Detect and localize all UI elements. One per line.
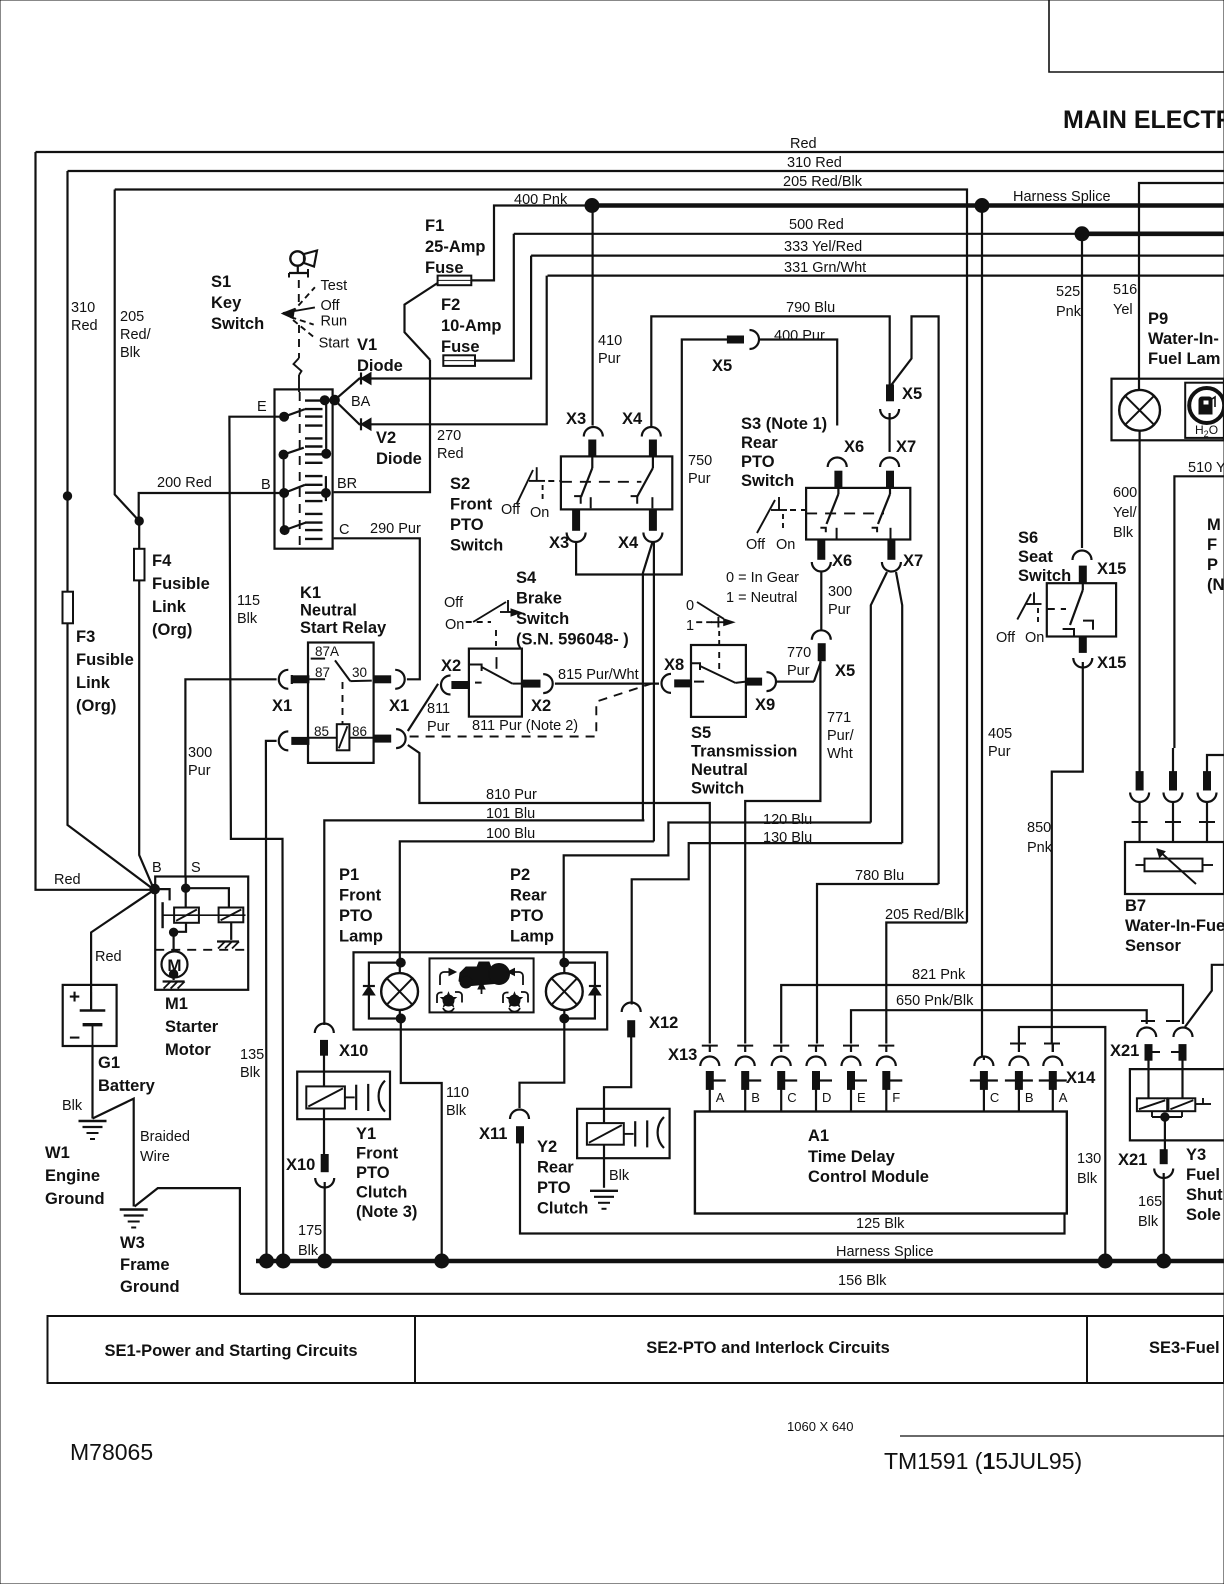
wire P2 bottom to X11 — [520, 1019, 565, 1109]
connector X13 pin E — [843, 1045, 859, 1047]
svg-text:Blk: Blk — [609, 1168, 630, 1184]
junction dot 400 Pnk at F1 feed — [585, 199, 599, 213]
svg-text:(N: (N — [1207, 576, 1224, 594]
svg-text:811: 811 — [427, 701, 450, 717]
svg-text:Link: Link — [76, 674, 111, 692]
svg-text:B: B — [1025, 1090, 1034, 1105]
svg-text:30: 30 — [352, 665, 367, 680]
svg-text:Seat: Seat — [1018, 548, 1053, 566]
wire P1 lamp vertical — [399, 963, 401, 973]
svg-text:W1: W1 — [45, 1144, 70, 1162]
S2 actuator — [517, 470, 534, 504]
module A1 box — [695, 1112, 1067, 1214]
Y3 coil left — [1137, 1098, 1167, 1111]
svg-text:B: B — [751, 1090, 760, 1105]
svg-text:750: 750 — [688, 453, 712, 469]
svg-text:Fusible: Fusible — [152, 575, 210, 593]
wire 525 Pnk — [1081, 234, 1083, 548]
wire C to 290 Pur — [334, 538, 420, 679]
wire fuel module output — [1172, 748, 1174, 772]
svg-text:Y3: Y3 — [1186, 1146, 1206, 1164]
svg-text:D: D — [822, 1090, 831, 1105]
S2 dashed bar — [561, 481, 642, 483]
svg-text:Sole: Sole — [1186, 1206, 1221, 1224]
svg-text:X15: X15 — [1097, 560, 1126, 578]
starter internal dashed divider — [155, 949, 248, 951]
svg-text:Fuel: Fuel — [1186, 1166, 1220, 1184]
switch S2 box — [561, 456, 672, 509]
wire 205 Red/Blk to pin F — [886, 923, 967, 1044]
svg-text:Yel: Yel — [1113, 302, 1133, 318]
svg-text:10-Amp: 10-Amp — [441, 317, 502, 335]
svg-text:Start Relay: Start Relay — [300, 619, 387, 637]
svg-text:Front: Front — [356, 1145, 399, 1163]
S4 link dashed — [496, 657, 498, 669]
wire BA to V2 diode — [335, 276, 547, 425]
svg-text:Pur: Pur — [988, 744, 1011, 760]
section box SE3 — [1087, 1316, 1224, 1383]
svg-text:(Org): (Org) — [152, 621, 192, 639]
svg-text:X15: X15 — [1097, 654, 1126, 672]
S4 left contact — [469, 665, 482, 672]
svg-text:Pur: Pur — [598, 351, 621, 367]
svg-text:C: C — [990, 1090, 999, 1105]
svg-text:331 Grn/Wht: 331 Grn/Wht — [784, 260, 866, 276]
connector X3 bottom — [573, 509, 580, 530]
wire 600 Yel/Blk — [1138, 431, 1140, 772]
gauge H2O circle — [1189, 388, 1224, 423]
svg-text:X4: X4 — [618, 534, 639, 552]
svg-text:Key: Key — [211, 294, 242, 312]
wire P1 bottom 110 Blk — [401, 1019, 442, 1262]
connector X14 pin B — [1009, 1057, 1028, 1067]
connector X6 bottom — [818, 540, 825, 560]
svg-text:525: 525 — [1056, 284, 1080, 300]
svg-text:771: 771 — [827, 710, 851, 726]
junction dot bus 165 — [1157, 1254, 1171, 1268]
wire 156 Blk — [240, 1293, 1224, 1295]
wire B internal hook — [155, 889, 170, 900]
svg-text:+: + — [69, 987, 80, 1008]
svg-text:Y2: Y2 — [537, 1138, 557, 1156]
wire 100 Blu — [400, 841, 654, 962]
svg-text:Pur: Pur — [787, 663, 810, 679]
svg-text:120 Blu: 120 Blu — [763, 812, 812, 828]
svg-text:516: 516 — [1113, 282, 1137, 298]
wire BA to V1 diode — [335, 256, 531, 401]
key icon S1 — [290, 251, 304, 265]
key switch shaft dashed — [298, 280, 300, 302]
svg-text:Off: Off — [321, 298, 341, 314]
svg-text:X5: X5 — [712, 357, 732, 375]
svg-text:F4: F4 — [152, 552, 172, 570]
svg-text:X9: X9 — [755, 696, 775, 714]
wire 101 Blu — [324, 820, 644, 1025]
svg-text:Wht: Wht — [827, 746, 853, 762]
svg-text:F3: F3 — [76, 628, 95, 646]
ground W3 frame ground — [120, 1208, 148, 1210]
svg-text:815 Pur/Wht: 815 Pur/Wht — [558, 667, 639, 683]
solenoid Y3 box — [1130, 1069, 1224, 1140]
connector X1 upper-right — [374, 676, 391, 683]
section box SE1 — [48, 1316, 416, 1383]
svg-text:Blk: Blk — [237, 611, 258, 627]
svg-text:Frame: Frame — [120, 1256, 170, 1274]
sensor B7 box — [1125, 842, 1224, 894]
Y1 clutch plates — [345, 1096, 355, 1098]
junction dot 110 Blk — [396, 1014, 405, 1023]
wire Red battery positive — [91, 890, 154, 1011]
switch S3 box — [806, 488, 910, 540]
ground W1 engine ground — [79, 1120, 107, 1122]
key switch shaft zigzag — [294, 358, 302, 375]
connector X11 — [510, 1110, 529, 1120]
connector X1 lower-right — [374, 735, 391, 742]
svg-text:Time Delay: Time Delay — [808, 1148, 896, 1166]
svg-text:Starter: Starter — [165, 1018, 219, 1036]
svg-text:1 = Neutral: 1 = Neutral — [726, 590, 797, 606]
svg-text:Control Module: Control Module — [808, 1168, 929, 1186]
S5 link dashed — [718, 652, 720, 672]
svg-text:Y1: Y1 — [356, 1125, 376, 1143]
wire F1 to 400 Pnk — [471, 206, 592, 281]
svg-text:165: 165 — [1138, 1194, 1162, 1210]
S3 actuator — [757, 500, 775, 533]
connector B7 pin — [1204, 772, 1211, 790]
svg-text:300: 300 — [188, 745, 212, 761]
connector B7 pin — [1136, 772, 1143, 790]
svg-text:S6: S6 — [1018, 529, 1038, 547]
S1 bottom blade — [280, 526, 289, 535]
diode P2 bypass — [564, 963, 595, 1019]
svg-text:Test: Test — [321, 278, 348, 294]
svg-text:G1: G1 — [98, 1054, 120, 1072]
clutch Y1 box — [297, 1072, 390, 1120]
junction dot P2 top — [560, 958, 569, 967]
svg-text:F2: F2 — [441, 296, 460, 314]
S1 right link Run bracket — [325, 476, 327, 501]
svg-text:Lamp: Lamp — [510, 928, 554, 946]
junction dot S — [182, 884, 190, 892]
wire X3 bottom loop to X5 — [576, 340, 727, 575]
node BA — [330, 395, 340, 405]
connector X1 lower-left — [279, 731, 289, 750]
svg-text:Lamp: Lamp — [339, 928, 383, 946]
connector B7 pin — [1170, 772, 1177, 790]
svg-text:821 Pnk: 821 Pnk — [912, 967, 966, 983]
connector X21 right — [1166, 1020, 1180, 1022]
Y2 coil — [587, 1123, 624, 1145]
tractor silhouette — [459, 962, 502, 986]
wire 650 Pnk/Blk — [851, 1010, 1147, 1043]
P9 module box top — [1139, 183, 1224, 390]
connector X15 top — [1073, 551, 1092, 561]
svg-text:Pnk: Pnk — [1056, 304, 1082, 320]
S4 blade — [482, 667, 513, 684]
wire 310 Red left rail — [68, 171, 155, 890]
node B — [150, 884, 160, 894]
tractor arrows — [440, 972, 452, 985]
svg-text:Red/: Red/ — [120, 327, 152, 343]
junction dot P2 bottom — [560, 1014, 569, 1023]
svg-text:X10: X10 — [339, 1042, 368, 1060]
svg-text:PTO: PTO — [537, 1179, 571, 1197]
svg-text:200 Red: 200 Red — [157, 475, 212, 491]
wire 270 Red — [334, 360, 430, 493]
svg-text:X1: X1 — [389, 697, 409, 715]
svg-text:Rear: Rear — [537, 1159, 574, 1177]
svg-text:X21: X21 — [1110, 1042, 1139, 1060]
svg-text:X10: X10 — [286, 1156, 315, 1174]
svg-text:Transmission: Transmission — [691, 743, 797, 761]
junction dot coil1-motor — [169, 928, 177, 936]
S5 left contact — [691, 663, 700, 670]
wire 333 Yel/Red — [531, 255, 1224, 257]
Y2 clutch plates — [624, 1133, 634, 1135]
wire 205 Red/Blk left rail — [115, 190, 154, 890]
svg-text:0: 0 — [686, 598, 694, 614]
junction dot 200 Red to F4 — [135, 517, 143, 525]
svg-text:E: E — [257, 399, 267, 415]
lamp P2 — [546, 973, 583, 1010]
svg-text:Switch: Switch — [516, 610, 569, 628]
wire 165 Blk — [1163, 1173, 1165, 1260]
B7 variable resistor — [1145, 859, 1203, 872]
svg-text:X3: X3 — [566, 410, 586, 428]
connector X13 pin D — [808, 1045, 824, 1047]
section box SE2 — [415, 1316, 1087, 1383]
connector X13 pin F — [878, 1045, 894, 1047]
Y3 coil right — [1168, 1098, 1195, 1111]
svg-text:Fuse: Fuse — [425, 259, 464, 277]
S2 left pole blade — [591, 456, 593, 468]
svg-text:B: B — [152, 860, 162, 876]
svg-text:BR: BR — [337, 476, 357, 492]
svg-text:X2: X2 — [441, 657, 461, 675]
svg-text:Pur: Pur — [427, 719, 450, 735]
svg-text:TM1591 (15JUL95): TM1591 (15JUL95) — [884, 1448, 1082, 1474]
wire 850 Pnk — [1052, 662, 1083, 1044]
svg-text:Neutral: Neutral — [300, 602, 357, 620]
svg-text:Blk: Blk — [120, 345, 141, 361]
svg-text:Blk: Blk — [446, 1103, 467, 1119]
switch S5 box — [691, 645, 746, 717]
terminal B blade — [280, 489, 289, 498]
svg-text:Engine: Engine — [45, 1167, 100, 1185]
svg-text:410: 410 — [598, 333, 622, 349]
svg-text:S: S — [191, 860, 201, 876]
svg-text:Red: Red — [790, 136, 817, 152]
svg-text:(Note 3): (Note 3) — [356, 1203, 417, 1221]
svg-text:PTO: PTO — [450, 516, 484, 534]
S1 left link E-B — [283, 455, 285, 530]
junction dot 310 Red — [63, 492, 71, 500]
svg-text:400 Pur: 400 Pur — [774, 328, 825, 344]
svg-text:S5: S5 — [691, 724, 711, 742]
svg-text:Off: Off — [444, 595, 464, 611]
svg-text:On: On — [530, 505, 549, 521]
switch S4 box — [469, 649, 522, 717]
svg-text:M1: M1 — [165, 995, 188, 1013]
junction dot bus 130 — [1098, 1254, 1112, 1268]
svg-text:Off: Off — [501, 502, 521, 518]
connector X13 pin A — [702, 1045, 718, 1047]
svg-text:Neutral: Neutral — [691, 761, 748, 779]
svg-text:A1: A1 — [808, 1127, 829, 1145]
S2 actuator link dashed — [548, 480, 561, 482]
page artifact box top-right — [1049, 0, 1224, 72]
svg-text:175: 175 — [298, 1223, 322, 1239]
junction dot motor bottom — [169, 970, 177, 978]
svg-text:X13: X13 — [668, 1046, 697, 1064]
junction dot 500 Red x1082 — [1075, 227, 1089, 241]
svg-text:S2: S2 — [450, 475, 470, 493]
svg-text:310 Red: 310 Red — [787, 155, 842, 171]
svg-text:600: 600 — [1113, 485, 1137, 501]
svg-text:C: C — [339, 522, 349, 538]
svg-text:PTO: PTO — [339, 907, 373, 925]
connector X21 left — [1141, 1020, 1155, 1022]
svg-text:Braided: Braided — [140, 1129, 190, 1145]
PTO star right — [509, 995, 520, 1006]
connector X14 dash B — [1010, 1043, 1026, 1045]
svg-text:X5: X5 — [902, 385, 922, 403]
wire 405 Pur — [981, 206, 983, 1057]
svg-text:X21: X21 — [1118, 1151, 1147, 1169]
connector X7 bottom — [888, 540, 895, 560]
svg-text:Battery: Battery — [98, 1077, 156, 1095]
svg-text:780 Blu: 780 Blu — [855, 868, 904, 884]
svg-text:X6: X6 — [844, 438, 864, 456]
svg-text:110: 110 — [446, 1085, 469, 1101]
svg-text:Start: Start — [319, 336, 350, 352]
S6 blade — [1082, 583, 1084, 590]
svg-text:BA: BA — [351, 394, 371, 410]
wire 815 Pur/Wht — [555, 682, 659, 684]
relay blade 87A-30 — [335, 660, 350, 681]
junction dot bus 110 — [435, 1254, 449, 1268]
wire S into starter — [185, 877, 187, 908]
svg-text:0 = In Gear: 0 = In Gear — [726, 570, 799, 586]
S3 left pole blade — [837, 488, 839, 494]
svg-text:Link: Link — [152, 598, 187, 616]
diode V1 — [361, 373, 371, 385]
svg-text:Ground: Ground — [120, 1278, 180, 1296]
clutch Y2 box — [577, 1109, 670, 1158]
diode V2 — [361, 418, 371, 430]
wire 120 Blu — [564, 823, 871, 963]
wire X12 to Y2 — [604, 1037, 631, 1123]
svg-text:Wire: Wire — [140, 1149, 170, 1165]
svg-text:Red: Red — [71, 318, 98, 334]
S4 actuator — [473, 602, 506, 622]
S3 right pole blade — [889, 488, 891, 494]
fuse F4 fusible link — [134, 549, 145, 581]
connector X12 — [622, 1003, 641, 1013]
svg-text:Pur: Pur — [188, 763, 211, 779]
connector X10 upper — [315, 1024, 334, 1034]
svg-text:270: 270 — [437, 428, 461, 444]
wire X4 bottom drop 1 — [643, 542, 653, 820]
switch S1 box — [275, 389, 333, 548]
connector X13 pin B — [737, 1045, 753, 1047]
wire 500 Red — [514, 233, 1224, 235]
svg-text:S1: S1 — [211, 273, 231, 291]
svg-text:X1: X1 — [272, 697, 292, 715]
connector X5 second — [887, 385, 894, 401]
svg-text:X7: X7 — [903, 552, 923, 570]
svg-text:25-Amp: 25-Amp — [425, 238, 486, 256]
connector X13 pin C — [773, 1045, 789, 1047]
connector X14 dash A — [1044, 1043, 1060, 1045]
svg-text:Blk: Blk — [62, 1098, 83, 1114]
key switch position rays — [292, 287, 315, 313]
connector X5 third — [812, 630, 831, 640]
svg-text:C: C — [787, 1090, 796, 1105]
svg-text:X4: X4 — [622, 410, 643, 428]
svg-text:X5: X5 — [835, 662, 855, 680]
relay coil wires — [309, 737, 337, 739]
svg-text:A: A — [716, 1090, 725, 1105]
junction dot harness splice x982 — [975, 199, 989, 213]
wire 300 Pur X6 to X5 — [820, 572, 822, 631]
starter plunger bar — [161, 902, 163, 928]
wire X5 bridge to 780 Blu rail — [891, 316, 938, 884]
tractor icon box — [430, 958, 534, 1012]
lamp P9 box — [1112, 379, 1224, 441]
svg-text:On: On — [445, 617, 464, 633]
svg-text:F1: F1 — [425, 217, 444, 235]
connector X1 upper-left — [279, 670, 289, 689]
svg-text:Switch: Switch — [691, 780, 744, 798]
wire 200 Red — [139, 493, 285, 521]
svg-text:115: 115 — [237, 593, 260, 609]
svg-text:Pur: Pur — [828, 602, 851, 618]
wire 400 Pur to S3 X6 — [759, 340, 837, 426]
S2 right pole blade — [652, 456, 654, 468]
wire X7 bottom split right — [896, 572, 902, 843]
svg-text:P9: P9 — [1148, 310, 1168, 328]
svg-text:(Org): (Org) — [76, 697, 116, 715]
wire X4 bottom drop 2 — [653, 542, 655, 841]
connector X21 bottom — [1160, 1150, 1167, 1164]
svg-text:Rear: Rear — [741, 434, 778, 452]
svg-text:510 Y: 510 Y — [1188, 460, 1224, 476]
Y3 wires — [1147, 1060, 1149, 1098]
svg-text:Yel/: Yel/ — [1113, 505, 1138, 521]
wire 130 Blu — [632, 843, 903, 1004]
svg-text:X6: X6 — [832, 552, 852, 570]
Y1 coil — [306, 1086, 345, 1108]
S1 blade second — [279, 450, 288, 459]
wire 500 Red thick harness segment — [1082, 232, 1224, 237]
connector X4 bottom — [649, 509, 656, 530]
svg-text:87A: 87A — [315, 644, 339, 659]
svg-text:Red: Red — [437, 446, 464, 462]
svg-text:135: 135 — [240, 1047, 264, 1063]
svg-text:X11: X11 — [479, 1125, 507, 1143]
starter solenoid coil 1 — [174, 908, 199, 923]
svg-text:333 Yel/Red: 333 Yel/Red — [784, 239, 862, 255]
wire X9 to 770 junction — [776, 680, 814, 682]
svg-text:650 Pnk/Blk: 650 Pnk/Blk — [896, 993, 974, 1009]
svg-text:B: B — [261, 477, 271, 493]
svg-text:F: F — [1207, 536, 1217, 554]
svg-text:Rear: Rear — [510, 887, 547, 905]
junction dot P1 bottom — [396, 1014, 405, 1023]
svg-text:Red: Red — [54, 872, 81, 888]
svg-text:On: On — [1025, 630, 1044, 646]
